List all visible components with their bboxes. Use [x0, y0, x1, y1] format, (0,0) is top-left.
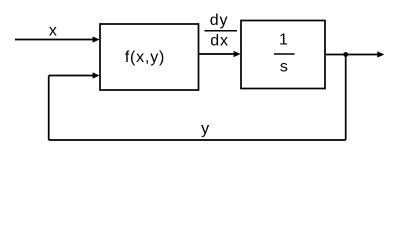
block 1/s: [241, 21, 325, 89]
wire feedback up: [48, 76, 50, 141]
svg-text:f(x,y): f(x,y): [125, 49, 165, 66]
arrowhead into f(x,y) top: [93, 36, 100, 42]
fraction bar 1/s: [274, 53, 295, 55]
svg-text:x: x: [49, 23, 58, 40]
fraction bar dy/dx: [205, 30, 238, 32]
arrowhead into f(x,y) bottom: [93, 72, 100, 78]
junction node: [343, 52, 348, 57]
wire feedback into f(x,y): [49, 75, 94, 77]
wire feedback bottom: [49, 139, 346, 141]
wire output: [326, 54, 379, 56]
arrowhead output: [377, 51, 384, 57]
svg-text:dy: dy: [210, 12, 229, 29]
arrowhead into 1/s: [234, 51, 241, 57]
wire f(x,y) to 1/s: [199, 53, 235, 55]
wire feedback down: [345, 55, 347, 141]
block f(x,y): [100, 24, 199, 90]
wire input x: [15, 39, 94, 41]
svg-text:s: s: [280, 58, 289, 75]
svg-text:dx: dx: [210, 33, 229, 50]
svg-text:y: y: [201, 121, 210, 138]
svg-text:1: 1: [279, 31, 289, 48]
